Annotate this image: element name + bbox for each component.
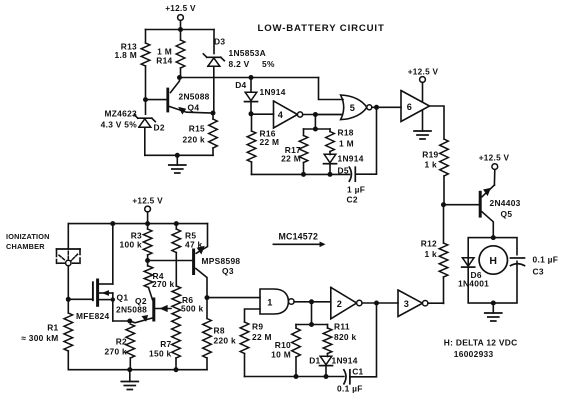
node R17/R18 top junction xyxy=(313,127,318,132)
svg-text:1 µF: 1 µF xyxy=(347,185,365,195)
svg-text:H: DELTA 12 VDC: H: DELTA 12 VDC xyxy=(444,338,518,348)
power +12.5 V supply terminal (top left) xyxy=(165,4,196,30)
svg-text:5%: 5% xyxy=(262,59,275,69)
svg-text:R10: R10 xyxy=(275,340,291,350)
wire Q1 drain to rail xyxy=(112,224,114,284)
svg-text:R7: R7 xyxy=(160,339,171,349)
ground (detector) xyxy=(121,370,138,390)
wire gate3 output to R12 xyxy=(428,302,444,304)
svg-text:+12.5 V: +12.5 V xyxy=(479,153,510,162)
svg-text:270 k: 270 k xyxy=(152,279,175,289)
power +12.5 V supply terminal (detector) xyxy=(132,197,163,224)
resistor R15 xyxy=(183,113,218,155)
node gate5 output junction xyxy=(374,105,379,110)
label MC14572 xyxy=(273,232,324,247)
wire D2 to bottom xyxy=(144,127,146,155)
node horn box bottom xyxy=(491,301,496,306)
capacitor C2 1uF xyxy=(347,167,366,204)
svg-text:LOW-BATTERY CIRCUIT: LOW-BATTERY CIRCUIT xyxy=(258,23,385,34)
resistor R12 xyxy=(421,205,448,304)
diode D1 1N914 xyxy=(309,354,358,377)
logic gate 1 (MC14572 NAND) xyxy=(260,289,294,314)
svg-text:R9: R9 xyxy=(252,322,263,332)
node Q4 base junction xyxy=(143,97,148,102)
capacitor C1 0.1uF xyxy=(337,367,364,394)
svg-text:1N914: 1N914 xyxy=(338,154,364,164)
svg-text:R15: R15 xyxy=(189,124,205,134)
svg-text:8.2 V: 8.2 V xyxy=(229,59,250,69)
ionization chamber electrodes xyxy=(57,249,81,266)
horn H (piezo) xyxy=(479,246,507,274)
svg-text:1: 1 xyxy=(267,297,272,307)
wire gate4 input xyxy=(251,113,274,115)
zener diode D3 xyxy=(203,37,275,70)
svg-text:IONIZATION: IONIZATION xyxy=(6,232,50,241)
svg-text:2N5088: 2N5088 xyxy=(116,305,147,315)
svg-text:R12: R12 xyxy=(421,239,437,249)
svg-text:R1: R1 xyxy=(47,323,58,333)
node R14/Q4 collector junction xyxy=(177,75,182,80)
wire Q3 to gate1 input xyxy=(207,297,260,299)
logic gate 4 (MC14572 inverter) xyxy=(274,101,303,128)
svg-text:R14: R14 xyxy=(156,56,172,66)
svg-text:4: 4 xyxy=(278,110,284,120)
node R3/R4/Q3-base junction xyxy=(145,258,150,263)
node R10 bottom xyxy=(294,374,299,379)
resistor R19 xyxy=(422,139,448,205)
node D4 cathode / R16 / gate4 input xyxy=(249,111,254,116)
wire Q5 base xyxy=(444,204,479,206)
node R7 ground junction xyxy=(174,367,179,372)
resistor R13 xyxy=(115,42,150,67)
node R3 rail junction xyxy=(145,221,150,226)
power +12.5 V supply terminal (Q5) xyxy=(479,153,510,185)
wire gate4 output down to R17/R18 xyxy=(304,115,331,130)
wire D3 anode down to Q4 emitter node xyxy=(213,67,215,114)
svg-text:22 M: 22 M xyxy=(281,154,301,164)
wire rail to chamber xyxy=(67,224,69,249)
svg-text:2: 2 xyxy=(337,299,342,309)
node R17 bottom xyxy=(301,172,306,177)
svg-text:+12.5 V: +12.5 V xyxy=(132,197,163,206)
svg-text:D2: D2 xyxy=(154,123,165,133)
label horn spec xyxy=(444,338,518,360)
resistor R2 xyxy=(105,324,135,370)
zener diode D2 xyxy=(101,109,165,133)
wire D3 branch top xyxy=(213,30,215,54)
svg-text:C1: C1 xyxy=(352,367,363,377)
node Q5 collector / horn box top xyxy=(491,235,496,240)
transistor Q3 MPS8598 (PNP) xyxy=(194,246,241,297)
svg-text:≈ 300 kM: ≈ 300 kM xyxy=(21,333,58,343)
svg-text:C2: C2 xyxy=(347,194,358,204)
diode D6 1N4001 xyxy=(458,258,489,289)
wire low-battery timing rail xyxy=(252,173,350,175)
svg-text:1 k: 1 k xyxy=(424,249,437,259)
resistor R7 xyxy=(149,316,180,370)
svg-text:16002933: 16002933 xyxy=(454,349,494,359)
node R19/R12/Q5-base junction xyxy=(441,202,446,207)
svg-text:100 k: 100 k xyxy=(120,240,143,250)
svg-text:4.3 V 5%: 4.3 V 5% xyxy=(101,120,138,130)
horn enclosure box xyxy=(468,238,517,303)
svg-text:2N5088: 2N5088 xyxy=(179,92,210,102)
transistor Q5 2N4403 (PNP) xyxy=(480,185,520,238)
svg-text:2N4403: 2N4403 xyxy=(490,198,521,208)
wire gate1-out down to R10/R11 xyxy=(296,302,328,325)
label ionization chamber xyxy=(6,232,50,251)
node D4 anode junction xyxy=(249,75,254,80)
wire gate2 output xyxy=(362,302,398,304)
power +12.5 V supply terminal (gate 6) xyxy=(408,68,439,103)
diode D5 1N914 xyxy=(324,152,364,176)
logic gate 6 (MC14572 buffer) xyxy=(401,91,430,122)
svg-text:C3: C3 xyxy=(533,267,544,277)
svg-text:220 k: 220 k xyxy=(183,135,206,145)
svg-text:+12.5 V: +12.5 V xyxy=(408,68,439,77)
wire gate4 output xyxy=(303,114,341,116)
ground (gate 6) xyxy=(414,110,431,139)
svg-text:CHAMBER: CHAMBER xyxy=(6,242,45,251)
wire R13 to D2 xyxy=(145,66,147,114)
svg-text:Q5: Q5 xyxy=(501,209,513,219)
ground (low-battery bias) xyxy=(169,155,186,173)
wire node A horizontal xyxy=(180,77,319,79)
wire R14 top xyxy=(180,30,182,41)
wire gate1 output xyxy=(294,301,331,303)
svg-text:5: 5 xyxy=(350,103,355,113)
svg-text:D3: D3 xyxy=(214,37,225,47)
wire Q3 base xyxy=(148,260,193,262)
node Q4 emitter / R15 / D3 xyxy=(211,111,216,116)
svg-text:R2: R2 xyxy=(116,337,127,347)
node D1 bottom xyxy=(324,374,329,379)
resistor R18 xyxy=(326,128,354,152)
wire left branch to R13 xyxy=(145,30,147,44)
wire R5 to R6 xyxy=(175,253,177,287)
resistor R16 xyxy=(247,114,279,175)
svg-text:1N4001: 1N4001 xyxy=(458,279,489,289)
node gate2 output junction xyxy=(374,301,379,306)
svg-text:22 M: 22 M xyxy=(260,137,280,147)
transistor Q1 MFE824 (MOSFET) xyxy=(68,280,128,321)
node R13/R14/D3 supply junction xyxy=(178,27,183,32)
wire top rail xyxy=(146,29,215,31)
svg-text:R18: R18 xyxy=(338,128,354,138)
node D5 bottom xyxy=(328,172,333,177)
wire detector ground rail xyxy=(68,369,207,371)
wire gate4-out to gate5 lower input xyxy=(315,114,342,116)
wire rail to Q3 emitter xyxy=(196,224,207,254)
svg-text:R11: R11 xyxy=(334,322,350,332)
svg-text:3: 3 xyxy=(404,299,409,309)
transistor Q2 2N5088 xyxy=(116,288,171,323)
ground (horn) xyxy=(485,303,502,321)
node Q2 emitter / R2 junction xyxy=(127,319,132,324)
wire gate1 lower input to R9 xyxy=(245,309,261,322)
svg-text:270 k: 270 k xyxy=(105,347,128,357)
wire gate6 output to R19 xyxy=(430,106,445,139)
wire R14 bottom xyxy=(180,68,182,78)
resistor R14 xyxy=(156,40,185,68)
node Q3 collector / R8 junction xyxy=(205,295,210,300)
wire Q1 source to R2 node xyxy=(113,320,130,322)
capacitor C3 0.1uF xyxy=(511,255,559,277)
svg-text:10 M: 10 M xyxy=(271,350,291,360)
svg-text:1 k: 1 k xyxy=(424,160,437,170)
resistor R9 xyxy=(240,322,272,377)
svg-text:D4: D4 xyxy=(235,80,246,90)
svg-text:220 k: 220 k xyxy=(214,336,237,346)
wire detector supply rail xyxy=(68,223,207,225)
svg-text:1 M: 1 M xyxy=(339,139,354,149)
svg-text:500 k: 500 k xyxy=(181,304,204,314)
svg-text:D1: D1 xyxy=(309,356,320,366)
svg-text:H: H xyxy=(489,255,497,267)
svg-text:Q1: Q1 xyxy=(117,293,129,303)
wire gate5 output xyxy=(372,106,401,108)
svg-text:MPS8598: MPS8598 xyxy=(202,256,241,266)
node Q1 drain rail junction xyxy=(110,221,115,226)
svg-text:1N914: 1N914 xyxy=(260,87,286,97)
resistor R3 xyxy=(120,224,152,261)
svg-text:1N914: 1N914 xyxy=(332,356,358,366)
logic gate 5 (MC14572 NOR) xyxy=(341,95,372,120)
title LOW-BATTERY CIRCUIT xyxy=(258,23,385,34)
node gate4 output junction xyxy=(313,112,318,117)
resistor R5 xyxy=(172,224,203,253)
resistor R1 xyxy=(21,299,72,369)
svg-text:R19: R19 xyxy=(422,150,438,160)
svg-text:MC14572: MC14572 xyxy=(279,232,319,242)
svg-text:6: 6 xyxy=(407,102,412,112)
wire C1 to gate2 output node xyxy=(350,303,377,377)
node ground stem junction xyxy=(175,153,180,158)
svg-text:Q4: Q4 xyxy=(188,103,200,113)
node R10/R11 top junction xyxy=(309,322,314,327)
resistor R11 xyxy=(323,322,356,354)
transistor Q4 2N5088 xyxy=(146,78,213,114)
svg-text:22 M: 22 M xyxy=(252,332,272,342)
node R2 ground junction xyxy=(127,367,132,372)
resistor R10 xyxy=(271,325,300,377)
svg-text:+12.5 V: +12.5 V xyxy=(165,4,196,13)
svg-text:MFE824: MFE824 xyxy=(76,311,109,321)
svg-text:820 k: 820 k xyxy=(334,332,357,342)
resistor R17 xyxy=(281,129,308,174)
resistor R6 potentiometer xyxy=(172,286,204,316)
wire oscillator ground rail xyxy=(245,376,344,378)
wire chamber to Q1 gate node xyxy=(67,266,69,300)
svg-text:R8: R8 xyxy=(214,326,225,336)
wire bottom of low-battery bias xyxy=(145,154,213,156)
resistor R4 xyxy=(144,261,174,290)
svg-text:150 k: 150 k xyxy=(149,349,172,359)
svg-text:Q3: Q3 xyxy=(222,266,234,276)
node R5 rail junction xyxy=(174,221,179,226)
wire C2 to gate5 output node xyxy=(355,107,376,174)
node Q1 gate / R1 junction xyxy=(66,297,71,302)
svg-text:MZ4623: MZ4623 xyxy=(104,109,137,119)
svg-text:1.8 M: 1.8 M xyxy=(115,50,137,60)
svg-text:0.1 µF: 0.1 µF xyxy=(337,384,363,394)
wire to gate5 input xyxy=(319,78,344,100)
logic gate 3 (MC14572 inverter) xyxy=(398,290,428,317)
svg-text:0.1 µF: 0.1 µF xyxy=(533,255,559,265)
resistor R8 xyxy=(203,298,236,370)
logic gate 2 (MC14572 inverter) xyxy=(331,287,362,319)
svg-text:1N5853A: 1N5853A xyxy=(229,48,267,58)
diode D4 1N914 xyxy=(235,78,286,114)
node gate1 output junction xyxy=(309,299,314,304)
